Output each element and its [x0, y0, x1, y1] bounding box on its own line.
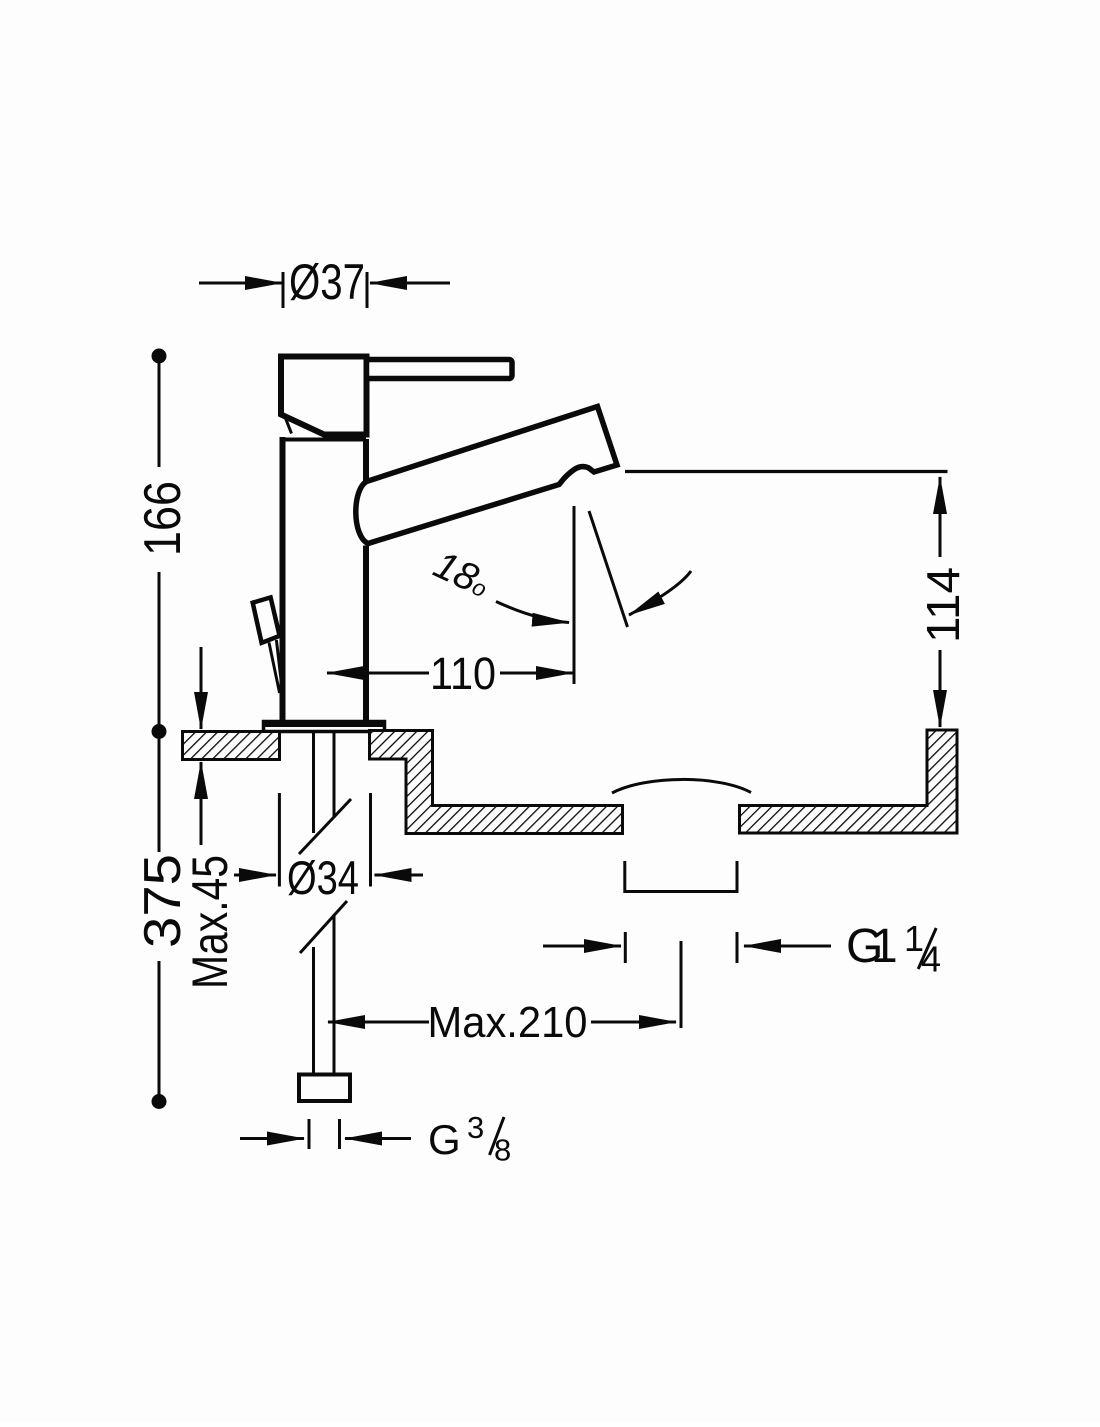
- svg-text:110: 110: [430, 648, 496, 699]
- dim 166 top dot: [152, 349, 167, 364]
- dim Max.45 lower arrow: [200, 762, 203, 845]
- dim Ø34 right tick: [369, 793, 372, 887]
- svg-text:Ø37: Ø37: [289, 254, 365, 310]
- svg-text:Ø34: Ø34: [287, 851, 359, 904]
- svg-text:166: 166: [134, 481, 192, 556]
- supply pipe end nut: [299, 1075, 350, 1102]
- svg-text:G: G: [428, 1116, 461, 1163]
- dim Ø34 left arrow: [234, 874, 276, 877]
- dim Max.45 upper arrow: [200, 647, 203, 729]
- svg-text:1: 1: [871, 920, 898, 973]
- svg-text:Max.210: Max.210: [428, 998, 588, 1047]
- dim Ø37 right tick: [366, 272, 369, 308]
- faucet body right edge upper: [363, 439, 369, 482]
- drain tailpiece: [625, 861, 737, 892]
- svg-text:Max.45: Max.45: [182, 855, 238, 989]
- basin bottom curve: [612, 779, 751, 793]
- drain pull knob: [253, 597, 280, 642]
- svg-text:3: 3: [467, 1110, 484, 1145]
- dim 114 upper arrow: [939, 477, 942, 557]
- countertop right step section: [370, 731, 623, 834]
- dim Ø34 right arrow: [375, 874, 424, 877]
- dim Ø37 left arrow line: [199, 282, 282, 285]
- dim 110 left arrow: [327, 672, 429, 675]
- dim G 3/8 fraction slash: [490, 1117, 505, 1155]
- drain pull rod left line: [269, 643, 280, 694]
- dim Ø37 left tick: [282, 272, 285, 308]
- faucet spout: [356, 407, 617, 544]
- dim 114 lower arrow: [939, 650, 942, 727]
- svg-text:4: 4: [921, 939, 941, 980]
- drain centre extension line: [680, 941, 683, 1028]
- supply pipe left upper: [312, 732, 315, 833]
- dim Ø37 right arrow line: [370, 282, 450, 285]
- dim G1 1/4 left tick: [624, 932, 627, 963]
- basin right wall section: [740, 730, 958, 833]
- base plate: [264, 722, 385, 732]
- dim G1 1/4 right arrow: [744, 945, 831, 948]
- supply pipe right lower: [333, 916, 336, 1075]
- spout height reference line: [625, 470, 948, 473]
- dim G 3/8 right arrow: [345, 1137, 411, 1140]
- supply pipe left lower: [312, 947, 315, 1075]
- svg-text:8: 8: [494, 1133, 511, 1168]
- pipe break slash upper: [299, 799, 351, 854]
- dim G1 1/4 fraction slash: [918, 928, 936, 969]
- faucet lever handle: [367, 360, 513, 379]
- faucet body left edge: [280, 437, 286, 721]
- drain pull rod right line: [276, 640, 281, 684]
- dim G 3/8 left tick: [308, 1119, 311, 1149]
- dim 375 bottom dot: [152, 1094, 167, 1109]
- faucet cartridge sliver: [285, 417, 292, 434]
- dim Ø34 left tick: [278, 793, 281, 887]
- dim 166/375 mid dot: [152, 724, 167, 739]
- dim 110 right arrow: [500, 672, 573, 675]
- dim G 3/8 right tick: [338, 1119, 341, 1149]
- dim 375 line lower: [158, 961, 161, 1102]
- dim Max.210 left arrow: [328, 1021, 429, 1024]
- faucet body right edge lower: [363, 546, 369, 722]
- dim Max.210 right arrow: [591, 1021, 676, 1024]
- supply pipe right upper: [333, 732, 336, 818]
- faucet cap: [281, 357, 367, 435]
- dim G1 1/4 left arrow: [543, 945, 621, 948]
- angle arc arrow: [496, 602, 569, 623]
- svg-text:18o: 18o: [427, 543, 496, 606]
- dim G1 1/4 right tick: [736, 932, 739, 963]
- angle vertical reference line: [573, 506, 576, 684]
- dim G 3/8 left arrow: [240, 1137, 304, 1140]
- faucet body top line: [282, 438, 366, 442]
- dim 166 line lower: [158, 572, 161, 852]
- water flow arrow: [629, 571, 691, 615]
- base plate top thick edge: [264, 721, 385, 727]
- pipe break slash lower: [300, 901, 347, 953]
- svg-text:114: 114: [917, 567, 969, 643]
- dim 166 line upper: [158, 356, 161, 467]
- angle 18deg ray: [589, 511, 628, 627]
- countertop left section: [183, 732, 280, 760]
